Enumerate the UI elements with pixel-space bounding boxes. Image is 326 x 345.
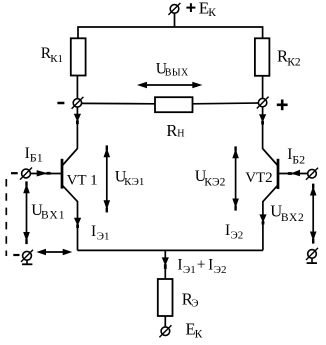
resistor RN (load): [155, 97, 193, 112]
arrow Uke1 double vertical: [104, 145, 111, 212]
arrow Ik2 down (below right terminal): [259, 114, 266, 124]
svg-text:ВХ1: ВХ1: [41, 209, 65, 221]
wire VT2 collector vertical: [262, 107, 264, 149]
svg-text:К: К: [208, 7, 216, 19]
resistor RE: [158, 279, 173, 316]
dashed input port line left: [5, 179, 7, 256]
svg-text:К: К: [195, 328, 203, 340]
svg-text:Э1: Э1: [97, 230, 110, 242]
wire Re tap: [164, 250, 166, 279]
label minus left output: [57, 102, 64, 105]
label +Ek top: [186, 0, 216, 19]
label Ib1: [25, 145, 43, 164]
wire VT1 emitter vertical: [77, 201, 79, 250]
resistor RK1: [71, 38, 86, 75]
svg-text:КЭ1: КЭ1: [124, 176, 144, 188]
wire VT1 emitter diagonal: [62, 185, 77, 201]
arrow bottom-left double horizontal: [36, 249, 72, 256]
terminal Ek (bottom): [159, 325, 171, 337]
arrow Ik1 down (below left terminal): [74, 114, 81, 124]
svg-text:I: I: [91, 223, 96, 240]
transistor VT2 base bar: [277, 159, 280, 189]
wire VT2 emitter diagonal: [263, 185, 278, 201]
arrow Uvyh double horizontal: [137, 82, 203, 89]
svg-text:Э1: Э1: [183, 264, 196, 276]
arrow Ie1 down (VT1 emitter): [74, 218, 81, 228]
arrow Uvx2 double vertical: [310, 184, 317, 244]
label Uke1: [115, 168, 145, 188]
svg-text:I: I: [225, 222, 230, 239]
terminal output left: [72, 97, 84, 109]
label plus right output: [277, 100, 288, 111]
wire Rk2 bottom to right output terminal: [262, 76, 264, 98]
terminal input1 bottom-left with foot: [21, 250, 33, 264]
label Uvyh: [156, 61, 189, 79]
arrow Uke2 double vertical: [232, 146, 239, 210]
label RK2: [277, 46, 301, 68]
terminal input1 top-left: [20, 168, 32, 180]
svg-text:Э2: Э2: [214, 264, 227, 276]
terminal +Ek (top): [168, 3, 180, 15]
wire crossbar right: [193, 102, 259, 105]
label Ek bottom: [186, 320, 203, 341]
svg-text:Э2: Э2: [231, 229, 244, 241]
label RK1: [41, 45, 63, 65]
terminal input2 top-right: [306, 168, 318, 180]
svg-text:ВХ2: ВХ2: [281, 212, 305, 224]
terminal output right: [257, 97, 269, 109]
label Uvx2: [270, 201, 304, 224]
svg-text:КЭ2: КЭ2: [204, 176, 225, 188]
svg-text:Б1: Б1: [30, 151, 43, 165]
transistor VT1 base bar: [61, 159, 64, 189]
wire VT2 collector diagonal: [263, 149, 278, 166]
svg-text:R: R: [166, 121, 177, 140]
wire bottom emitter bus: [78, 249, 263, 251]
arrow Ib1 into VT1 base: [37, 170, 51, 176]
svg-text:ВЫХ: ВЫХ: [165, 67, 189, 78]
svg-text:VT2: VT2: [245, 170, 273, 186]
svg-text:Б2: Б2: [292, 152, 305, 166]
label minus input1 bottom: [13, 254, 19, 256]
arrow Ie1+Ie2 down (Re tap): [162, 257, 169, 269]
svg-text:К2: К2: [287, 57, 301, 69]
svg-text:К1: К1: [50, 53, 63, 65]
arrow Uvx1 double vertical: [23, 181, 30, 244]
label Ib2: [287, 146, 305, 166]
arrow Ib2 into VT2 base: [288, 170, 300, 176]
svg-text:Н: Н: [177, 128, 184, 139]
wire crossbar left: [82, 102, 155, 104]
wire VT1 base: [30, 173, 61, 175]
label Ie2: [225, 222, 243, 242]
svg-text:+: +: [197, 257, 206, 274]
resistor RK2: [255, 38, 270, 76]
label RE: [182, 290, 199, 310]
label Uke2: [195, 168, 226, 189]
wire Rk1 bottom to left output terminal: [76, 76, 78, 99]
svg-text:Э: Э: [191, 298, 198, 310]
label RN: [166, 121, 184, 140]
svg-text:VT 1: VT 1: [67, 172, 98, 188]
svg-text:I: I: [208, 256, 213, 273]
arrow Ie2 down (VT2 emitter): [259, 214, 266, 224]
svg-text:I: I: [177, 256, 182, 273]
wire +Ek stem: [174, 13, 176, 27]
wire VT2 base: [279, 173, 308, 175]
terminal input2 bottom-right with foot: [306, 248, 318, 263]
wire VT1 collector diagonal: [62, 149, 77, 166]
wire VT2 emitter vertical: [262, 201, 264, 250]
wire Re to Ek terminal: [164, 316, 166, 327]
wire top bus: [78, 27, 263, 39]
label minus input1 top: [11, 172, 18, 174]
label Uvx1: [31, 202, 65, 222]
label Ie1: [91, 223, 110, 242]
wire VT1 collector vertical: [76, 107, 78, 149]
label Ie1+Ie2: [177, 256, 226, 276]
